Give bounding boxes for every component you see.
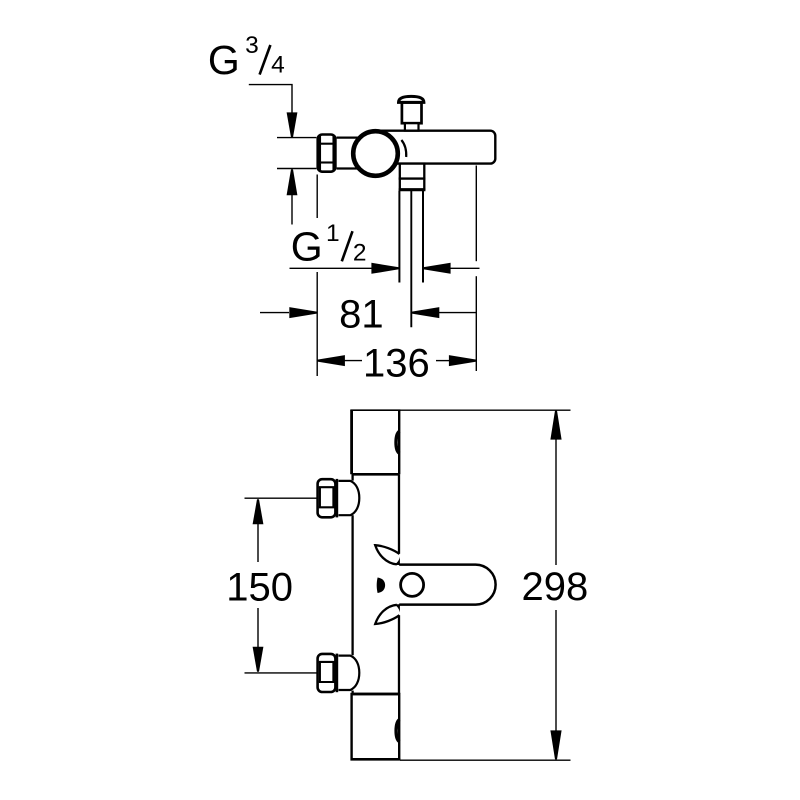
dim 81 right tail line [439, 312, 476, 314]
lower nut facet top [319, 661, 335, 663]
inlet pipe between nut and circle [337, 137, 361, 139]
eco button blob [377, 578, 385, 594]
collar bottom thick edge [399, 188, 426, 191]
svg-text:4: 4 [271, 52, 285, 79]
leader line from G3/4 [249, 85, 292, 113]
bottom screw crescent on face [396, 720, 399, 742]
dim 81 arrow pointing left [412, 307, 440, 318]
upper hex nut [318, 479, 336, 517]
upper beak corner fillet [394, 557, 400, 565]
leader tail below up arrow [291, 195, 293, 225]
hose center line [410, 191, 412, 327]
bottom cap top thick edge [352, 693, 400, 696]
svg-text:1: 1 [326, 220, 340, 247]
bottom extension line to 298 dim [400, 759, 571, 761]
dim 150 line above text [257, 524, 259, 562]
dim 150 upper extension line [245, 497, 318, 499]
hose right line [422, 191, 424, 283]
body face line lower segment [398, 615, 400, 694]
label G1/2 : fraction slash [342, 231, 353, 261]
thermostat handle circle [353, 131, 398, 176]
diverter knob stem [402, 103, 422, 124]
lower lever beak [375, 605, 399, 624]
lower union flange [336, 654, 339, 693]
svg-text:G: G [291, 223, 323, 269]
svg-text:136: 136 [363, 341, 430, 385]
svg-text:81: 81 [339, 293, 384, 337]
dim 298 arrow pointing up [550, 411, 561, 440]
label G3/4 : fraction slash [260, 45, 271, 75]
diverter knob foot [405, 123, 419, 130]
dim 136 arrow pointing right [449, 355, 477, 366]
reflection arc on body [401, 140, 406, 157]
diverter knob circle on spout [401, 573, 424, 596]
upper nut facet top [319, 486, 335, 488]
mixer body bar [367, 131, 495, 164]
union hex nut (side view) [318, 135, 336, 172]
lower union dome escutcheon [339, 656, 360, 690]
upper nut facet right [332, 487, 334, 507]
wall-plane extension line lower segment [316, 272, 318, 376]
nut facet top horizontal [320, 143, 334, 145]
lower beak corner fillet [394, 604, 400, 612]
lower nut facet bottom [319, 681, 335, 683]
svg-text:150: 150 [226, 566, 293, 610]
extension line, pipe bottom [277, 168, 316, 170]
dim 136 line right of text [436, 360, 449, 362]
upper nut facet left [319, 487, 321, 507]
shower hose collar [400, 179, 425, 190]
upper union dome escutcheon [339, 481, 360, 515]
upper union flange [336, 479, 339, 518]
shower hose connector block [400, 164, 425, 179]
lower hex nut [318, 654, 336, 692]
hose left line [398, 191, 400, 283]
upper nut facet bottom [319, 506, 335, 508]
arrow pointing up to pipe bottom [287, 169, 298, 195]
dim 150 arrow pointing down [253, 647, 264, 672]
extension line, pipe top [277, 137, 316, 139]
G1/2 dimension line left part [290, 267, 373, 269]
dim 298 line above text [555, 411, 557, 565]
body left edge segment above upper dome [351, 474, 353, 480]
dim 298 line below text [555, 610, 557, 758]
top extension line to 298 dim [399, 409, 570, 411]
dim 298 arrow pointing down [550, 730, 561, 759]
svg-text:G: G [208, 37, 240, 83]
dim 136 arrow pointing left [317, 355, 345, 366]
body left edge segment between domes [351, 515, 353, 655]
G1/2 dimension line right part [450, 267, 480, 269]
G1/2 arrow pointing right at hose [371, 263, 399, 274]
dim 150 line below text [257, 608, 259, 647]
dim 150 arrow pointing up [253, 499, 264, 524]
leader arrow pointing down to pipe top [287, 112, 298, 137]
lower nut facet right [332, 662, 334, 682]
upper lever beak [375, 545, 399, 564]
svg-text:3: 3 [245, 32, 259, 59]
dim 81 left tail line [260, 312, 289, 314]
bottom cap bottom thick edge [351, 758, 401, 761]
dim 150 lower extension line [245, 672, 318, 674]
nut facet right vertical [332, 136, 334, 171]
body face line upper segment [398, 474, 400, 554]
body top cap [352, 410, 400, 474]
lower nut facet left [319, 662, 321, 682]
svg-text:298: 298 [522, 565, 589, 609]
G1/2 arrow pointing left at hose [423, 263, 451, 274]
wall-plane extension line upper segment [316, 175, 318, 219]
dim 81 arrow pointing right [289, 307, 317, 318]
nut facet bottom horizontal [320, 161, 334, 163]
diverter knob cap [399, 96, 424, 102]
bath spout (side profile) [399, 565, 495, 605]
nut facet left vertical [319, 136, 321, 171]
right extension line from body end [475, 166, 477, 262]
body bottom cap [352, 694, 400, 759]
dim 136 line left of text [345, 360, 363, 362]
svg-text:2: 2 [353, 239, 367, 266]
body left edge segment below lower dome [351, 691, 353, 694]
top cap bottom thick edge [352, 473, 400, 476]
top screw crescent on face [396, 431, 399, 453]
